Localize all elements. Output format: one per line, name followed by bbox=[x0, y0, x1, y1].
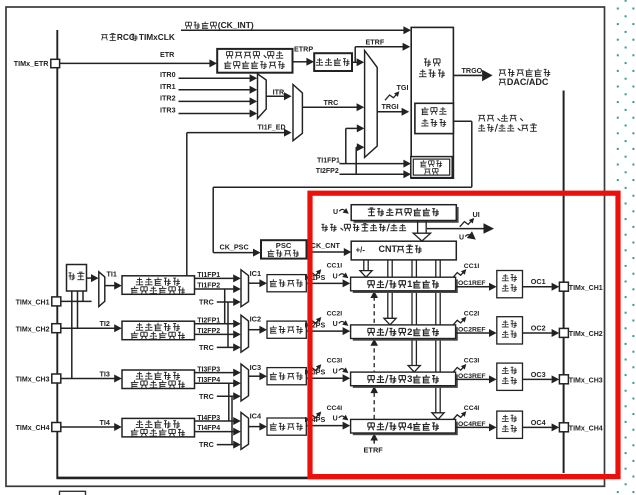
block ARR shadow bbox=[354, 207, 459, 223]
wire TRC bbox=[302, 106, 357, 108]
svg-text:TI2: TI2 bbox=[100, 319, 110, 328]
wire ETRF riser bbox=[354, 47, 356, 63]
block trigger controller bbox=[411, 27, 453, 178]
text capture/compare 4 bbox=[368, 422, 374, 424]
svg-text:TIMx_ETR: TIMx_ETR bbox=[14, 59, 50, 68]
svg-text:CNT: CNT bbox=[379, 244, 398, 254]
wire IC3 bbox=[249, 375, 263, 377]
wire TIMx_CH4 bbox=[61, 426, 114, 428]
svg-text:TRC: TRC bbox=[324, 98, 339, 107]
arrow hollow into capture4 bbox=[432, 413, 444, 420]
mux IC4 select bbox=[241, 412, 249, 449]
wire OC2 bbox=[523, 332, 552, 334]
arrow CK_CNT into CNT bbox=[344, 248, 352, 256]
text encoder line1 bbox=[422, 160, 424, 162]
arrow hollow ARR-CNT bbox=[413, 233, 430, 241]
text slave line1 bbox=[424, 107, 426, 109]
wire slave out v1 bbox=[471, 121, 473, 187]
block capture shadow 4 bbox=[353, 422, 458, 436]
mux trigger select bbox=[365, 51, 378, 158]
wire left pin rail bbox=[56, 30, 58, 478]
svg-text:ETRF: ETRF bbox=[364, 445, 384, 454]
svg-text:TI4: TI4 bbox=[100, 418, 110, 427]
text filter ch4 line1 bbox=[136, 426, 143, 428]
arrow TI4 into filter bbox=[114, 423, 122, 431]
pin TIMx_CH3 square bbox=[52, 374, 61, 383]
svg-text:DAC/ADC: DAC/ADC bbox=[507, 77, 549, 87]
block prescaler ch2 bbox=[267, 321, 306, 338]
arrow IC4 into prescaler bbox=[259, 423, 267, 431]
wire TI2FP2 riser bbox=[355, 147, 357, 174]
wire TI3FP4 bbox=[195, 382, 234, 384]
legend box remnant bbox=[60, 491, 86, 495]
wire ITR1 bbox=[179, 89, 251, 91]
text to DAC/ADC bbox=[499, 78, 506, 80]
wire TI1FP2 bbox=[195, 288, 234, 290]
svg-text:TI3FP4: TI3FP4 bbox=[197, 377, 220, 384]
arrow U event big bbox=[484, 223, 495, 234]
svg-text:ITR3: ITR3 bbox=[160, 106, 176, 115]
text output ctrl 1 l2 bbox=[502, 290, 509, 292]
mux IC2 select bbox=[241, 315, 249, 352]
svg-text:TI3: TI3 bbox=[100, 369, 110, 378]
arrow dashed up into capture3 bbox=[370, 386, 378, 393]
wire OC2REF bbox=[456, 332, 490, 334]
svg-text:ETRP: ETRP bbox=[294, 44, 313, 53]
mux TRC select bbox=[293, 85, 302, 141]
svg-text:TI4FP3: TI4FP3 bbox=[197, 415, 220, 422]
wire TI2FP1 bbox=[195, 323, 234, 325]
wire OC1 bbox=[523, 286, 552, 288]
pin TIMx_CH2 right square bbox=[559, 328, 568, 337]
text output ctrl 3 l2 bbox=[502, 383, 509, 385]
wire TIMx_CH2 bbox=[61, 327, 114, 329]
block encoder interface inner bbox=[413, 159, 449, 175]
text capture/compare 2 bbox=[368, 327, 374, 329]
arrow OC4 to pin bbox=[552, 423, 560, 431]
wire TI4FP4 bbox=[195, 431, 234, 433]
block CNT bbox=[351, 241, 456, 260]
wire OC3REF bbox=[456, 378, 490, 380]
wire slave out h1 bbox=[453, 120, 471, 122]
block capture/compare 1 bbox=[351, 277, 456, 291]
text filter ch2 line1 bbox=[136, 329, 143, 331]
svg-text:TRC: TRC bbox=[199, 392, 214, 401]
wire TI2FP2 trig bbox=[340, 173, 405, 175]
svg-text:OC4: OC4 bbox=[531, 418, 546, 427]
block output control 1 bbox=[497, 271, 523, 298]
text trigger ctrl line2 bbox=[419, 76, 427, 78]
wire OC3 bbox=[523, 378, 552, 380]
wire CNT bus pair ch4 bbox=[435, 260, 437, 413]
arrow OC1 to pin bbox=[552, 283, 560, 291]
arrow ITR0 bbox=[250, 74, 258, 82]
wire CNT bus pair ch3 bbox=[411, 260, 413, 366]
arrow TI1FP1 into trigger mux bbox=[357, 124, 365, 132]
text PSC cjk bbox=[270, 250, 272, 252]
arrow OC4REF bbox=[489, 423, 497, 431]
arrow CK_PSC into PSC bbox=[253, 249, 261, 257]
arrow IC1PS into capture bbox=[343, 279, 351, 287]
mux TI1 select bbox=[99, 272, 105, 307]
wire slave out v2 bbox=[212, 187, 214, 252]
block input filter ch1 bbox=[122, 276, 195, 295]
text input filter ETR bbox=[316, 64, 323, 66]
pin TIMx_CH4 square bbox=[52, 423, 61, 432]
wire TI1 bbox=[105, 285, 115, 287]
svg-text:CK_CNT: CK_CNT bbox=[311, 241, 341, 250]
svg-text:TI3FP3: TI3FP3 bbox=[197, 366, 220, 373]
wire OC4REF bbox=[456, 426, 490, 428]
wire TIMx_CH3 bbox=[61, 378, 114, 380]
arrow TI3FP3 bbox=[233, 369, 241, 377]
wire ETRF bottom bbox=[373, 439, 375, 444]
wire IC4 bbox=[249, 426, 263, 428]
block prescaler ch1 bbox=[267, 275, 306, 292]
text encoder line2 bbox=[424, 168, 430, 170]
arrow TI1F_ED into TRC mux bbox=[284, 129, 292, 137]
svg-text:OC3: OC3 bbox=[531, 370, 546, 379]
wire bottom boundary bbox=[56, 477, 604, 480]
block output control 3 bbox=[497, 363, 523, 390]
block capture shadow 3 bbox=[353, 374, 458, 388]
pin TIMx_ETR square bbox=[51, 59, 60, 67]
text prescaler ch1 bbox=[272, 279, 274, 281]
text updown count bbox=[478, 130, 485, 132]
svg-text:CC2I: CC2I bbox=[464, 311, 480, 318]
arrow TRC ch3 bbox=[233, 392, 241, 400]
svg-text:IC1: IC1 bbox=[250, 269, 262, 278]
svg-text:TIMx_CH4: TIMx_CH4 bbox=[16, 425, 50, 432]
wire cross B ch3-4 bbox=[231, 396, 233, 444]
event arrow CC3I right bbox=[453, 365, 465, 372]
text polarity line2 bbox=[227, 61, 229, 63]
event arrow CC1I right bbox=[453, 270, 465, 277]
text filter ch1 line1 bbox=[136, 284, 143, 286]
wire ETRP bbox=[293, 61, 308, 63]
svg-text:TI4FP4: TI4FP4 bbox=[197, 425, 220, 432]
pin TIMx_CH3 right square bbox=[559, 375, 568, 384]
text trigger ctrl line1 bbox=[424, 58, 427, 60]
svg-text:TI1: TI1 bbox=[107, 269, 117, 278]
arrow IC4PS into capture bbox=[343, 422, 351, 430]
block capture/compare 2 bbox=[351, 325, 456, 339]
wire CK_CNT bbox=[307, 251, 346, 253]
svg-text:TIMxCLK: TIMxCLK bbox=[139, 32, 175, 42]
wire OC1REF bbox=[456, 286, 490, 288]
event arrow UI bbox=[460, 219, 473, 227]
svg-text:TIMx_CH4: TIMx_CH4 bbox=[569, 426, 603, 433]
svg-text:U: U bbox=[333, 416, 338, 423]
text ARR bbox=[368, 208, 375, 210]
block prescaler ch3 bbox=[267, 368, 306, 385]
svg-text:3: 3 bbox=[407, 374, 412, 385]
arrow TI2FP2 into encoder bbox=[403, 170, 411, 178]
svg-text:U: U bbox=[333, 209, 338, 216]
arrow IC2PS into capture bbox=[343, 327, 351, 335]
svg-text:IC3: IC3 bbox=[250, 363, 262, 372]
text slave line2 bbox=[421, 125, 428, 127]
arrow CK_INT into trigger ctrl bbox=[403, 26, 411, 34]
text prescaler ch2 bbox=[272, 326, 274, 328]
mux IC1 select bbox=[241, 270, 249, 307]
block slave mode controller bbox=[415, 103, 454, 133]
text stop clear updown bbox=[322, 223, 325, 225]
svg-text:U: U bbox=[333, 368, 338, 375]
block PSC prescaler bbox=[261, 240, 307, 258]
svg-text:OC2: OC2 bbox=[531, 323, 546, 332]
block prescaler ch4 bbox=[267, 418, 306, 435]
wire CK_INT bbox=[181, 29, 405, 31]
svg-text:TI2FP2: TI2FP2 bbox=[197, 328, 220, 335]
svg-text:TRGO: TRGO bbox=[462, 66, 483, 75]
arrow ITR3 bbox=[250, 110, 258, 118]
arrow TI4FP3 bbox=[233, 417, 241, 425]
svg-text:ITR0: ITR0 bbox=[160, 70, 176, 79]
arrow TRGO big bbox=[482, 70, 493, 82]
svg-text:TIMx_CH3: TIMx_CH3 bbox=[16, 377, 50, 384]
arrow OC3REF bbox=[489, 375, 497, 383]
wire slave out h2 bbox=[213, 186, 472, 188]
event arrow CC2I right bbox=[453, 318, 465, 325]
svg-text:2: 2 bbox=[407, 327, 412, 338]
wire TIMx_CH1 bbox=[61, 300, 91, 302]
wire IC4PS bbox=[307, 425, 343, 427]
svg-text:1: 1 bbox=[407, 279, 413, 290]
arrow OC2REF bbox=[489, 329, 497, 337]
wire ARR to CNT pair bbox=[417, 220, 419, 233]
svg-text:ETR: ETR bbox=[160, 50, 175, 59]
block encoder interface outer bbox=[411, 157, 452, 178]
svg-text:U: U bbox=[333, 321, 338, 328]
arrow TRC ch2 bbox=[233, 343, 241, 351]
block polarity/edge-detector/prescaler bbox=[217, 49, 292, 73]
wire TRC ch4 bbox=[217, 444, 234, 446]
block output control 4 bbox=[497, 411, 523, 438]
wire TRC ch1 bbox=[217, 301, 234, 303]
svg-text:TRC: TRC bbox=[199, 298, 214, 307]
arrow TRC ch4 bbox=[233, 441, 241, 449]
arrow TRC ch1 bbox=[233, 298, 241, 306]
block capture shadow 1 bbox=[353, 279, 458, 293]
arrow filter out into mux bbox=[357, 58, 365, 66]
wire ITR2 bbox=[179, 100, 251, 102]
block input filter ch4 bbox=[122, 418, 195, 437]
arrow TI1FP1 bbox=[233, 274, 241, 282]
event arrow CC1I left bbox=[308, 271, 321, 278]
wire TRC ch2 bbox=[217, 346, 234, 348]
wire TI2FP2 stub bbox=[356, 146, 357, 148]
svg-text:4: 4 bbox=[407, 421, 413, 432]
text to other timers bbox=[499, 69, 506, 71]
svg-text:TIMx_CH2: TIMx_CH2 bbox=[16, 326, 50, 333]
block input filter ch2 bbox=[122, 321, 195, 340]
svg-text:ITR1: ITR1 bbox=[160, 82, 176, 91]
svg-text:CC2I: CC2I bbox=[327, 310, 343, 317]
svg-text:TI1FP2: TI1FP2 bbox=[197, 283, 220, 290]
svg-text:UI: UI bbox=[473, 210, 480, 219]
text polarity line1 bbox=[227, 51, 233, 53]
block capture/compare 4 bbox=[351, 419, 456, 433]
arrow XOR out bbox=[91, 274, 99, 282]
block input filter ch3 bbox=[122, 370, 195, 389]
arrow ITR2 bbox=[250, 97, 258, 105]
wire IC1 bbox=[249, 282, 263, 284]
svg-text:TI1F_ED: TI1F_ED bbox=[258, 125, 286, 132]
arrow TI4FP4 bbox=[233, 428, 241, 436]
block capture shadow 2 bbox=[353, 327, 458, 341]
arrow ETRF up into capture4 bbox=[370, 433, 378, 440]
wire XOR out bbox=[87, 277, 92, 279]
svg-text:OC1: OC1 bbox=[531, 277, 546, 286]
wire TRGI bbox=[377, 111, 402, 113]
svg-text:TIMx_CH1: TIMx_CH1 bbox=[569, 285, 603, 292]
arrow dashed up into capture2 bbox=[370, 339, 378, 346]
text output ctrl 1 l1 bbox=[502, 280, 509, 282]
wire TRGO bbox=[453, 74, 482, 76]
svg-text:TIMx_CH3: TIMx_CH3 bbox=[569, 378, 603, 385]
arrow ETRP bbox=[306, 58, 314, 66]
text reset enable bbox=[478, 114, 485, 116]
mux IC3 select bbox=[241, 364, 249, 401]
text filter ch2 line2 bbox=[134, 331, 136, 333]
svg-text:TI1FP1: TI1FP1 bbox=[197, 272, 220, 279]
arrow IC2 into prescaler bbox=[259, 326, 267, 334]
arrow hollow into capture2 bbox=[384, 318, 396, 325]
event arrow CC2I left bbox=[308, 318, 321, 325]
wire TI1FP1 stub bbox=[346, 127, 358, 129]
arrow TI2FP2 bbox=[233, 330, 241, 338]
text filter ch3 line1 bbox=[136, 378, 143, 380]
text output ctrl 2 l1 bbox=[502, 326, 509, 328]
arrow TI1FP1 into encoder bbox=[403, 160, 411, 168]
text prescaler ch4 bbox=[272, 423, 274, 425]
svg-text:(CK_INT): (CK_INT) bbox=[218, 20, 254, 30]
svg-text:IC2: IC2 bbox=[250, 314, 262, 323]
wire ITR3 bbox=[179, 113, 251, 115]
wire XOR drop ch1 bbox=[82, 291, 84, 301]
arrow IC1 into prescaler bbox=[259, 279, 267, 287]
svg-text:ITR: ITR bbox=[273, 87, 285, 96]
text filter ch4 line2 bbox=[134, 429, 136, 431]
wire TI1FP1 riser bbox=[345, 128, 347, 163]
text output ctrl 4 l1 bbox=[502, 420, 509, 422]
event arrow CC4I right bbox=[453, 413, 465, 420]
block ARR bbox=[351, 205, 456, 221]
wire TI1FP1 trig bbox=[340, 163, 405, 165]
svg-text:TGI: TGI bbox=[397, 83, 409, 92]
svg-text:TI2FP2: TI2FP2 bbox=[316, 168, 339, 175]
text capture/compare 3 bbox=[368, 375, 374, 377]
wire ITR0 bbox=[179, 77, 251, 79]
event arrow TGI bbox=[385, 93, 398, 101]
event arrow CC3I left bbox=[308, 366, 321, 373]
wire CK_PSC bbox=[213, 252, 253, 254]
arrow ITR into TRC mux bbox=[284, 92, 292, 100]
arrow hollow into capture1 bbox=[360, 271, 372, 278]
svg-text:+/-: +/- bbox=[356, 245, 366, 254]
arrow TI2FP2 into trigger mux bbox=[357, 143, 365, 151]
svg-text:TRC: TRC bbox=[199, 440, 214, 449]
wire TI1FP1 bbox=[195, 277, 234, 279]
wire ITR bbox=[266, 95, 284, 97]
text output ctrl 2 l2 bbox=[502, 336, 509, 338]
wire IC3PS bbox=[307, 377, 343, 379]
text filter ch1 line2 bbox=[134, 286, 136, 288]
svg-text:ETRF: ETRF bbox=[366, 38, 385, 47]
arrow TRGI bbox=[402, 108, 410, 116]
arrow TRC into trigger mux bbox=[357, 103, 365, 111]
wire TRC ch3 bbox=[217, 395, 234, 397]
svg-text:CC3I: CC3I bbox=[464, 358, 480, 365]
pin TIMx_CH1 right square bbox=[559, 282, 568, 291]
text filter ch3 line2 bbox=[134, 380, 136, 382]
svg-text:CC1I: CC1I bbox=[464, 263, 480, 270]
arrow IC3 into prescaler bbox=[259, 372, 267, 380]
pin TIMx_CH4 right square bbox=[559, 423, 568, 432]
arrow TI2 into filter bbox=[114, 324, 122, 332]
red highlight box bbox=[310, 193, 618, 476]
arrow TI3FP4 bbox=[233, 379, 241, 387]
wire CNT bus pair ch2 bbox=[387, 260, 389, 319]
wire TI2FP2 bbox=[195, 333, 234, 335]
svg-text:U: U bbox=[459, 234, 464, 241]
wire IC2PS bbox=[307, 330, 343, 332]
arrow OC2 to pin bbox=[552, 329, 560, 337]
arrow TI1 into filter1 bbox=[114, 282, 122, 290]
event arrow CC4I left bbox=[308, 413, 321, 420]
svg-text:TRGI: TRGI bbox=[382, 102, 399, 111]
block output control 2 bbox=[497, 317, 523, 344]
wire TI1F_ED bbox=[187, 132, 285, 134]
wire ETRF bbox=[355, 46, 403, 48]
svg-text:TIMx_CH1: TIMx_CH1 bbox=[16, 300, 50, 307]
arrow hollow into capture3 bbox=[408, 366, 420, 373]
svg-text:IC4: IC4 bbox=[250, 412, 262, 421]
arrow dashed up into capture1 bbox=[370, 291, 378, 298]
block XOR bbox=[67, 265, 87, 292]
block capture/compare 3 bbox=[351, 372, 456, 386]
svg-text:CK_PSC: CK_PSC bbox=[220, 242, 249, 251]
arrow OC1REF bbox=[489, 283, 497, 291]
svg-text:U: U bbox=[333, 273, 338, 280]
mux ITR select bbox=[258, 74, 267, 119]
block input filter ETR bbox=[314, 53, 352, 71]
svg-text:CC4I: CC4I bbox=[464, 405, 480, 412]
decor dotted backdrop bbox=[617, 0, 635, 495]
wire IC1PS bbox=[307, 282, 343, 284]
text XOR bbox=[69, 272, 72, 274]
wire right boundary bbox=[563, 91, 565, 474]
svg-text:TI1FP1: TI1FP1 bbox=[317, 158, 340, 165]
text output ctrl 4 l2 bbox=[502, 431, 509, 433]
wire OC4 bbox=[523, 426, 552, 428]
arrow IC3PS into capture bbox=[343, 374, 351, 382]
wire XOR drop ch2 bbox=[77, 291, 79, 328]
svg-text:ITR2: ITR2 bbox=[160, 93, 176, 102]
wire TI1F_ED riser bbox=[186, 133, 188, 276]
wire filter out bbox=[352, 61, 357, 63]
wire IC2 bbox=[249, 329, 263, 331]
arrow ETR bbox=[209, 59, 217, 67]
svg-text:PSC: PSC bbox=[276, 241, 292, 250]
text prescaler ch3 bbox=[272, 372, 274, 374]
wire cross A ch1-2 bbox=[224, 289, 226, 324]
arrow OC3 to pin bbox=[552, 375, 560, 383]
wire ETR bbox=[60, 62, 211, 64]
wire U event bbox=[427, 228, 484, 230]
arrow TI1FP2 bbox=[233, 285, 241, 293]
